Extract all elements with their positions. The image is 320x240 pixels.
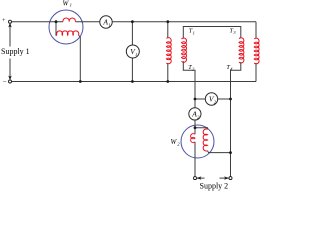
transformer 1 primary winding (left outer coil) xyxy=(166,38,171,64)
svg-text:−: − xyxy=(3,78,7,86)
ammeter A1 xyxy=(100,16,112,28)
wire supply1 arrow line xyxy=(9,24,11,79)
svg-text:1: 1 xyxy=(193,30,195,35)
supply2 left terminal xyxy=(194,177,197,180)
svg-text:+: + xyxy=(2,17,6,24)
wattmeter W2 xyxy=(181,125,214,158)
ammeter A2 xyxy=(189,108,201,120)
svg-text:1: 1 xyxy=(108,23,110,28)
voltmeter V1 xyxy=(126,45,139,58)
voltmeter V2 xyxy=(205,93,217,105)
wire top rail xyxy=(12,21,257,23)
wire A2-W2 main line xyxy=(194,120,196,177)
wire T2 stub to A2 line xyxy=(183,61,195,108)
svg-text:Supply 1: Supply 1 xyxy=(1,47,30,56)
wire bottom rail xyxy=(12,81,257,83)
supply2 right arrow xyxy=(220,177,229,179)
W1 voltage coil xyxy=(57,31,79,35)
W1 voltage-coil left connector xyxy=(55,22,58,36)
junction W1 voltage coil tap on top rail xyxy=(55,20,58,23)
junction W1 voltage coil return on bottom rail xyxy=(79,80,82,83)
svg-text:2: 2 xyxy=(177,141,180,146)
svg-text:W: W xyxy=(63,0,70,7)
supply2 right terminal xyxy=(229,177,232,180)
wire T4 stub down right side xyxy=(231,62,241,177)
supply1 bottom arrowhead xyxy=(8,76,11,81)
junction V2 right node xyxy=(229,98,232,101)
junction T1 primary bottom on bottom rail xyxy=(166,80,169,83)
W2 voltage-coil top connector xyxy=(195,128,208,130)
junction W2 voltage coil return node xyxy=(229,151,232,154)
transformer 2 primary winding (right outer coil) xyxy=(254,38,259,64)
svg-text:Supply 2: Supply 2 xyxy=(200,181,229,190)
svg-text:1: 1 xyxy=(70,3,72,8)
junction V2 left node xyxy=(194,98,197,101)
transformer 1 secondary winding T1-T2 (left inner coil) xyxy=(182,38,187,62)
W2 voltage-coil bottom connector xyxy=(208,151,231,153)
transformer 2 secondary winding T3-T4 (right inner coil) xyxy=(239,38,244,63)
wire inner box top rail xyxy=(183,27,241,39)
junction V1 bottom branch on bottom rail xyxy=(131,80,134,83)
W1 voltage-coil right connector xyxy=(79,35,81,81)
junction V1 top branch on top rail xyxy=(131,20,134,23)
supply1 - terminal xyxy=(9,80,12,83)
svg-text:3: 3 xyxy=(233,30,236,35)
wire V2 row xyxy=(195,98,231,100)
junction W2 voltage coil tap xyxy=(194,126,197,129)
wattmeter W1 xyxy=(49,10,83,44)
W1 current coil xyxy=(63,18,75,22)
wire left primary stubs xyxy=(167,22,169,82)
W2 current coil xyxy=(191,134,195,143)
supply1 + terminal xyxy=(9,20,12,23)
supply2 left arrow xyxy=(197,177,205,179)
wire right primary stubs xyxy=(255,22,257,82)
svg-text:4: 4 xyxy=(230,67,233,72)
svg-text:1: 1 xyxy=(135,52,137,57)
supply1 top arrowhead xyxy=(8,23,11,28)
W2 voltage coil xyxy=(203,129,207,151)
junction T1 primary top on top rail xyxy=(166,20,169,23)
wire V1 branch xyxy=(131,22,133,82)
